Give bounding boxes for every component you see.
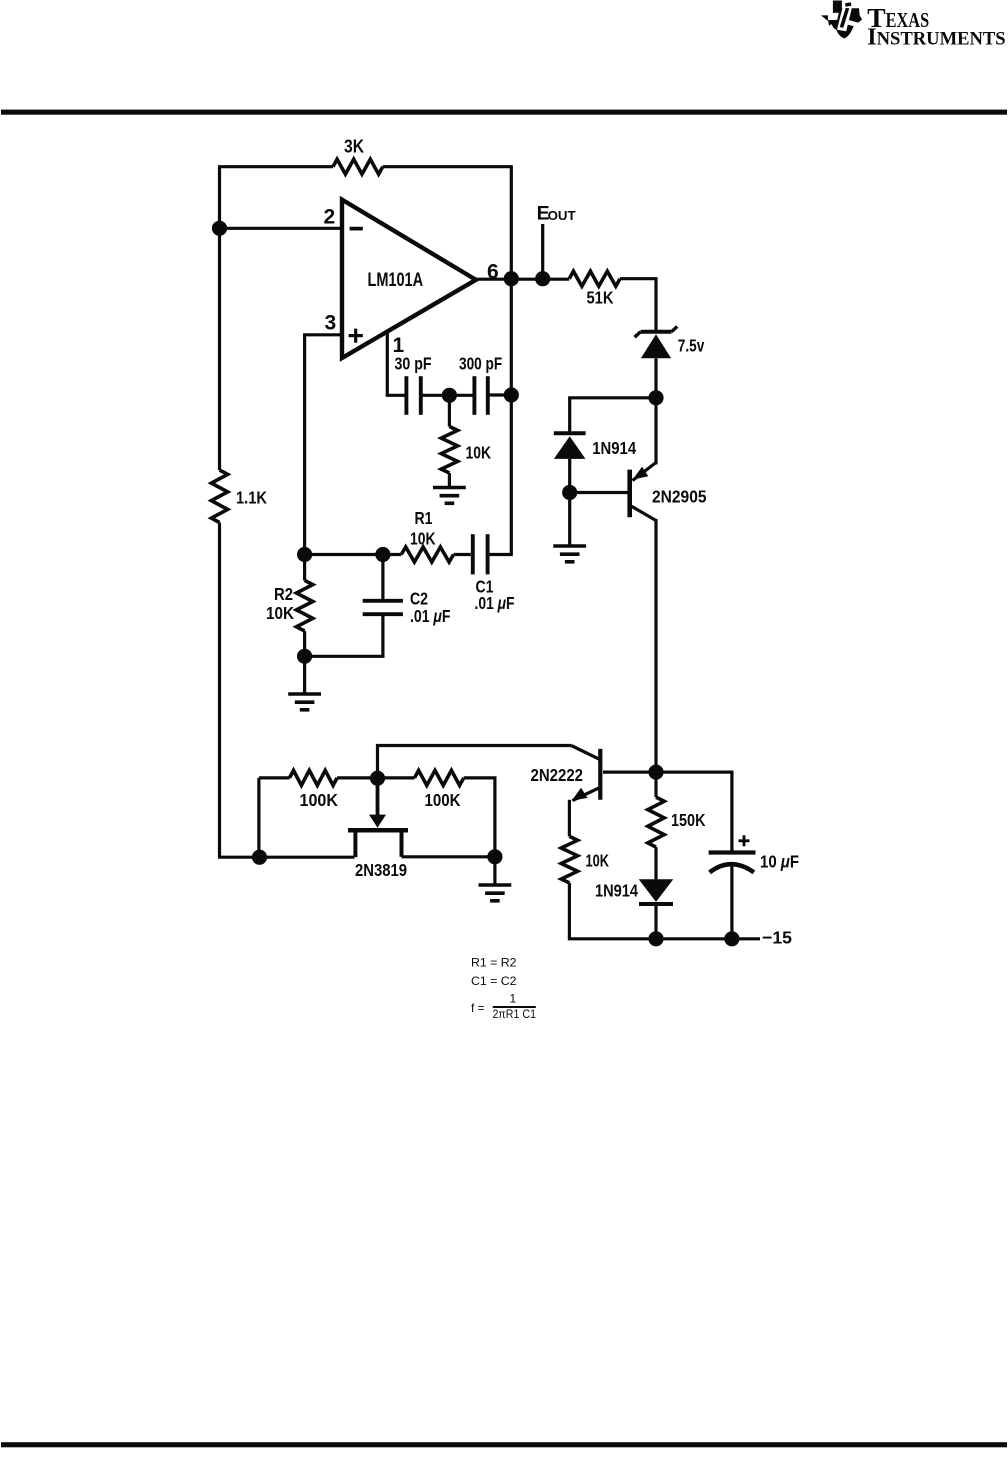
ground below comp 10K [433,488,466,504]
wire bottom rail [568,937,760,940]
label 30 pF value [395,354,432,374]
svg-text:1.1K: 1.1K [236,488,267,508]
node junction on left rail at pin2 wire [212,221,227,236]
svg-text:1: 1 [510,992,517,1006]
label 10K comp value [466,443,492,463]
ground below R2 [288,694,321,710]
wire 30pF to mid junction [421,394,450,397]
svg-text:10K: 10K [586,851,610,871]
capacitor C2 .01 uF [363,601,403,614]
ground below 1N914 [553,546,586,562]
svg-text:2N3819: 2N3819 [355,860,407,880]
wire zener to emitter node [654,358,657,398]
svg-text:R1: R1 [415,508,433,528]
wire right rail down to C1 [510,165,513,554]
wire EOUT stem [541,224,544,279]
label 1N914 lower value [595,881,638,901]
label C2 value [410,606,451,626]
wire 2N2905 collector down to lower node [654,519,657,772]
wire 2N2905 emitter up to node [654,398,657,465]
node junction bottom rail at capacitor [724,931,739,946]
node junction at EOUT tap [535,271,550,286]
wire 51K to zener corner [620,279,656,330]
wire drain node ground stem [493,857,496,885]
JFET Q3 2N3819 [348,778,408,857]
formula f equals [471,1001,485,1015]
label 51K value [587,288,614,308]
wire R2 bottom lead [303,631,306,656]
pin number 6 [487,261,499,284]
svg-text:.01 μF: .01 μF [410,606,451,626]
formula C1 = C2 [471,974,517,988]
formula R1 = R2 [471,956,517,970]
wire 100K-left vertical [257,778,260,857]
resistor R1 10K [401,547,453,562]
formula fraction numerator 1 [510,992,517,1006]
wire R2 top lead [303,555,306,581]
label 10K emitter value [586,851,610,871]
bottom rule [1,1442,1007,1447]
label C1 value [475,593,515,613]
svg-text:10K: 10K [266,603,294,623]
label R2 ref [274,584,293,604]
op-amp U1 LM101A triangle [342,200,476,358]
label 10 uF value [760,852,799,872]
wire pin 3 to left and down to R1/R2 node [305,335,344,555]
node junction bottom rail at 150K [648,931,663,946]
top rule [1,110,1007,115]
wire 100K-left to gate node [337,776,377,779]
wire 2N2222 base to node [603,770,656,773]
resistor R2 10K [296,580,312,631]
svg-text:OUT: OUT [548,209,576,223]
wire top-left from left rail to 3K [220,165,334,168]
svg-text:100K: 100K [425,790,461,810]
capacitor C1 .01 uF [473,534,488,574]
plus sign capacitor polarity [739,835,750,846]
node junction bottom-left [252,850,267,865]
svg-text:R2: R2 [274,584,293,604]
wire node to R1 [383,553,401,556]
svg-text:10K: 10K [410,529,436,549]
minus sign inverting input [350,227,363,231]
Texas Instruments logo mark [821,0,862,38]
svg-text:C1 = C2: C1 = C2 [471,974,517,988]
label 3K value [344,137,364,157]
wire R1 to C1 [454,553,471,556]
svg-text:3: 3 [325,312,337,335]
pin number 2 [324,206,336,229]
zener diode 7.5v [635,327,678,359]
svg-text:10K: 10K [466,443,492,463]
node junction R1/C2 top [375,547,390,562]
label 300 pF value [459,354,502,374]
svg-text:−15: −15 [762,928,792,948]
label 2N2905 [652,487,707,507]
label R1 value 10K [410,529,436,549]
wire pin 1 down and to 30pF [387,330,404,395]
label 2N2222 [531,765,584,785]
label 7.5v value [678,336,705,356]
wire output pin6 to 51K [475,278,569,281]
svg-text:.01 μF: .01 μF [475,593,515,613]
label 1.1K value [236,488,267,508]
node junction between comp caps [442,388,457,403]
formula fraction bar [493,1006,536,1008]
label 2N3819 [355,860,407,880]
wire base node to 2N2905 base [570,491,630,494]
wire 300pF to right rail [488,393,512,396]
label 100K left value [300,790,339,810]
resistor 10K comp [441,427,457,474]
svg-text:100K: 100K [300,790,339,810]
wire R2-top node to R1 node [305,553,383,556]
svg-text:1N914: 1N914 [592,438,636,458]
svg-text:10 μF: 10 μF [760,852,799,872]
wire 1N914 lower to bottom rail [654,904,657,939]
resistor 1.1K [211,470,227,523]
label LM101A [368,269,424,291]
wire C2 bottom to ground node [305,614,383,656]
wire 10K comp to ground [448,473,451,487]
label -15 supply [762,928,792,948]
resistor 51K [569,271,620,286]
capacitor 10 uF electrolytic [709,853,756,873]
svg-text:51K: 51K [587,288,614,308]
node junction R2 top [297,547,312,562]
capacitor 30 pF [406,376,420,415]
pin number 1 [393,334,405,357]
wire capacitor to bottom rail [730,865,733,939]
wire emitter bend to 10K [568,800,571,837]
node junction R2/C2 bottom [297,649,312,664]
label C2 ref [410,589,428,609]
logo wordmark INSTRUMENTS [867,25,1005,51]
wire 100K-left lead [259,776,290,779]
wire mid junction down to 10K [448,395,451,426]
pin number 3 [325,312,337,335]
wire 1N914 to base node [568,459,571,493]
logo wordmark TEXAS [867,2,929,33]
wire left rail below 1.1K [218,523,221,858]
svg-text:2πR1 C1: 2πR1 C1 [493,1007,537,1021]
label R2 value 10K [266,603,294,623]
wire left rail down to bottom [218,165,221,470]
label 150K value [671,810,706,830]
resistor 100K right [415,770,464,785]
node junction comp caps at right rail [504,387,519,402]
node junction base of 2N2905 [562,485,577,500]
label 1N914 upper value [592,438,636,458]
wire JFET right leg to drain node [402,855,495,858]
wire 150K to 1N914 lower [654,847,657,879]
svg-text:7.5v: 7.5v [678,336,705,356]
label 100K right value [425,790,461,810]
resistor 10K emitter [561,836,577,883]
svg-text:3K: 3K [344,137,364,157]
svg-text:2N2222: 2N2222 [531,765,584,785]
svg-text:30 pF: 30 pF [395,354,432,374]
resistor 150K [648,797,664,847]
wire gate node top run [378,746,572,779]
svg-text:LM101A: LM101A [368,269,424,291]
transistor Q1 2N2905 [630,463,656,521]
diode 1N914 lower [639,879,674,904]
node junction output at right rail [504,271,519,286]
svg-text:1N914: 1N914 [595,881,638,901]
svg-text:300 pF: 300 pF [459,354,502,374]
wire node to capacitor branch [656,772,732,853]
wire left rail bottom to JFET source [218,856,354,859]
resistor 3K [333,159,383,174]
node junction gate node [370,771,385,786]
ground below JFET drain node [479,885,512,901]
svg-text:2: 2 [324,206,336,229]
wire ground stem R2 [303,656,306,693]
svg-text:2N2905: 2N2905 [652,487,707,507]
wire 100K-right down to drain node [464,778,495,857]
wire 10K to bottom rail [568,883,571,939]
label EOUT [537,203,576,225]
svg-text:INSTRUMENTS: INSTRUMENTS [867,25,1005,51]
plus sign non-inverting input [349,329,363,343]
capacitor 300 pF [474,376,487,415]
svg-text:f =: f = [471,1001,485,1015]
node junction drain node [487,849,502,864]
node junction collector node [648,765,663,780]
wire C1 to right rail corner [488,553,513,556]
node junction zener-emitter [648,390,663,405]
wire node to 1N914 branch [570,398,656,432]
svg-text:R1 = R2: R1 = R2 [471,956,517,970]
label C1 ref [476,577,494,597]
wire node to 150K [654,772,657,797]
formula fraction denominator [493,1007,537,1021]
wire top-right from 3K to right rail corner [383,165,512,168]
wire gate node to 100K-right [378,776,415,779]
wire C2 top lead [381,555,384,601]
wire base node to ground [568,493,571,546]
wire 2N2222 collector diagonal [571,746,600,760]
resistor 100K left [290,770,338,785]
label R1 ref [415,508,433,528]
transistor Q2 2N2222 [572,749,601,801]
svg-text:150K: 150K [671,810,706,830]
wire inverting input to pin 2 [220,227,345,230]
diode 1N914 upper [554,433,586,459]
wire mid junction to 300pF [449,394,474,397]
